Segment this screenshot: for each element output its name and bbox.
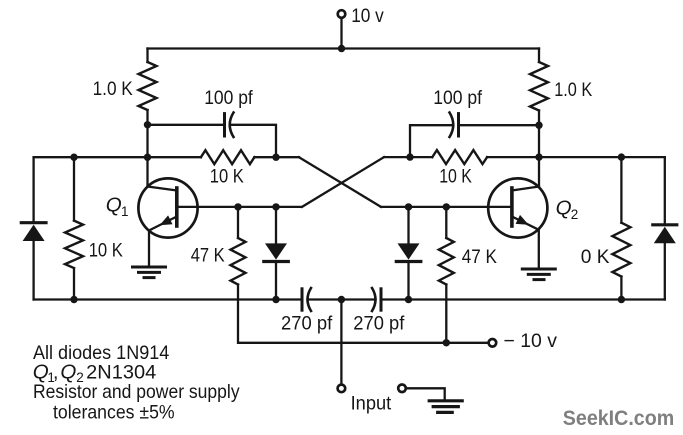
wire rail to R2: [538, 49, 540, 63]
wire cross diagonal left-down: [299, 157, 381, 207]
node rail 0K bottom: [618, 296, 625, 303]
node Q1 base / 47K: [234, 203, 241, 210]
transistor Q2: [488, 157, 547, 268]
node rail diode right: [405, 296, 412, 303]
resistor R6 47K left branch: [237, 207, 239, 238]
svg-text:SeekIC.com: SeekIC.com: [563, 407, 674, 430]
node rail diode left: [272, 296, 279, 303]
terminal +10v: [338, 10, 346, 18]
svg-text:47 K: 47 K: [462, 246, 497, 268]
wire top supply rail: [148, 47, 540, 49]
diode D1 far left (1N914): [21, 157, 46, 299]
capacitor C1 100pf left branch wire: [148, 124, 225, 126]
wire rail to R1: [146, 49, 148, 63]
capacitor C3 270pf left plates: [301, 289, 304, 310]
wire C3 to center node: [308, 298, 342, 300]
svg-text:1.0 K: 1.0 K: [93, 78, 133, 100]
svg-text:1.0 K: 1.0 K: [554, 79, 592, 101]
diode D4 far right (1N914): [653, 157, 677, 299]
terminal Input: [338, 385, 346, 393]
node C1 junction: [272, 154, 279, 161]
svg-text:1: 1: [121, 204, 129, 219]
svg-text:10 K: 10 K: [439, 166, 472, 188]
node Q2 collector: [535, 153, 542, 160]
resistor R7 47K right branch: [445, 207, 447, 238]
resistor R8 0K far right: [612, 157, 630, 299]
svg-text:10 K: 10 K: [210, 166, 244, 188]
wire right bus row: [487, 156, 665, 158]
wire C1 to corner: [230, 125, 276, 157]
capacitor C4 270pf right plates: [372, 288, 376, 311]
node C2 junction: [406, 153, 413, 160]
node Q2 base / 47K: [443, 203, 450, 210]
svg-text:270 pf: 270 pf: [281, 312, 333, 334]
wire input stem: [340, 300, 342, 385]
wire cross diagonal right-up: [302, 157, 384, 207]
ground under Q1: [133, 267, 166, 278]
node rail 10K bottom: [70, 296, 77, 303]
svg-text:2: 2: [571, 207, 579, 222]
node 0K top: [618, 153, 625, 160]
svg-text:− 10 v: − 10 v: [504, 330, 558, 352]
svg-text:Input: Input: [351, 392, 392, 414]
capacitor C1 100pf plates: [223, 114, 226, 136]
svg-text:10 v: 10 v: [351, 5, 384, 27]
wire Q2 base line: [381, 206, 512, 208]
diode D3 right (1N914): [396, 207, 421, 300]
wire right row to R4: [384, 156, 432, 158]
svg-text:Q: Q: [556, 197, 572, 220]
transistor Q1: [138, 157, 197, 266]
resistor R5 10K far left: [65, 157, 83, 299]
svg-text:Resistor and power supply: Resistor and power supply: [33, 381, 240, 403]
svg-text:Q: Q: [106, 194, 122, 217]
svg-text:100 pf: 100 pf: [204, 87, 253, 109]
ground input: [429, 401, 462, 413]
svg-text:Q: Q: [60, 360, 76, 383]
wire R2 to node B: [538, 111, 540, 158]
svg-text:0 K: 0 K: [581, 246, 610, 268]
wire C2 to corner: [410, 125, 453, 157]
node supply junction: [338, 45, 345, 52]
terminal -10v: [489, 339, 497, 347]
resistor R3 10K cross-coupling left: [201, 150, 255, 164]
terminal input return: [398, 385, 406, 393]
wire input return to ground: [406, 388, 445, 400]
svg-text:,: ,: [53, 361, 58, 383]
node B cap right: [535, 122, 542, 129]
wire bottom rail left: [34, 298, 302, 300]
svg-text:Q: Q: [33, 360, 49, 383]
resistor R1 1.0K left: [139, 62, 157, 110]
svg-text:47 K: 47 K: [191, 245, 225, 267]
wire bottom rail right: [382, 298, 665, 300]
capacitor C2 100pf plates: [457, 114, 460, 136]
ground under Q2: [522, 269, 555, 280]
resistor R2 1.0K right: [530, 62, 548, 111]
node -10v line / 47K: [443, 339, 450, 346]
diode D2 left (1N914): [264, 207, 289, 300]
wire left bus row: [34, 156, 201, 158]
svg-text:270 pf: 270 pf: [353, 312, 405, 334]
wire center node to C4: [341, 298, 375, 300]
wire Q1 base line: [177, 206, 301, 208]
node Q1 base / diode: [272, 203, 279, 210]
node Q2 base / diode: [405, 203, 412, 210]
svg-text:tolerances ±5%: tolerances ±5%: [53, 402, 175, 424]
svg-text:10 K: 10 K: [89, 240, 123, 262]
wire R1 to node A: [146, 110, 148, 157]
svg-text:100 pf: 100 pf: [433, 87, 482, 109]
wire 47K right down across rail: [445, 285, 447, 343]
resistor R4 10K cross-coupling right: [432, 150, 487, 164]
wire 10v feed: [340, 18, 342, 48]
node rail center input: [338, 296, 345, 303]
capacitor C2 100pf right branch wire: [459, 124, 539, 126]
node A cap left: [144, 121, 151, 128]
node Q1 collector: [144, 154, 151, 161]
wire R3 to diagonal corner: [254, 156, 299, 158]
svg-text:2N1304: 2N1304: [86, 361, 156, 383]
wire 47K left down to -10v line: [238, 285, 488, 343]
node row left: 10K top: [70, 154, 77, 161]
